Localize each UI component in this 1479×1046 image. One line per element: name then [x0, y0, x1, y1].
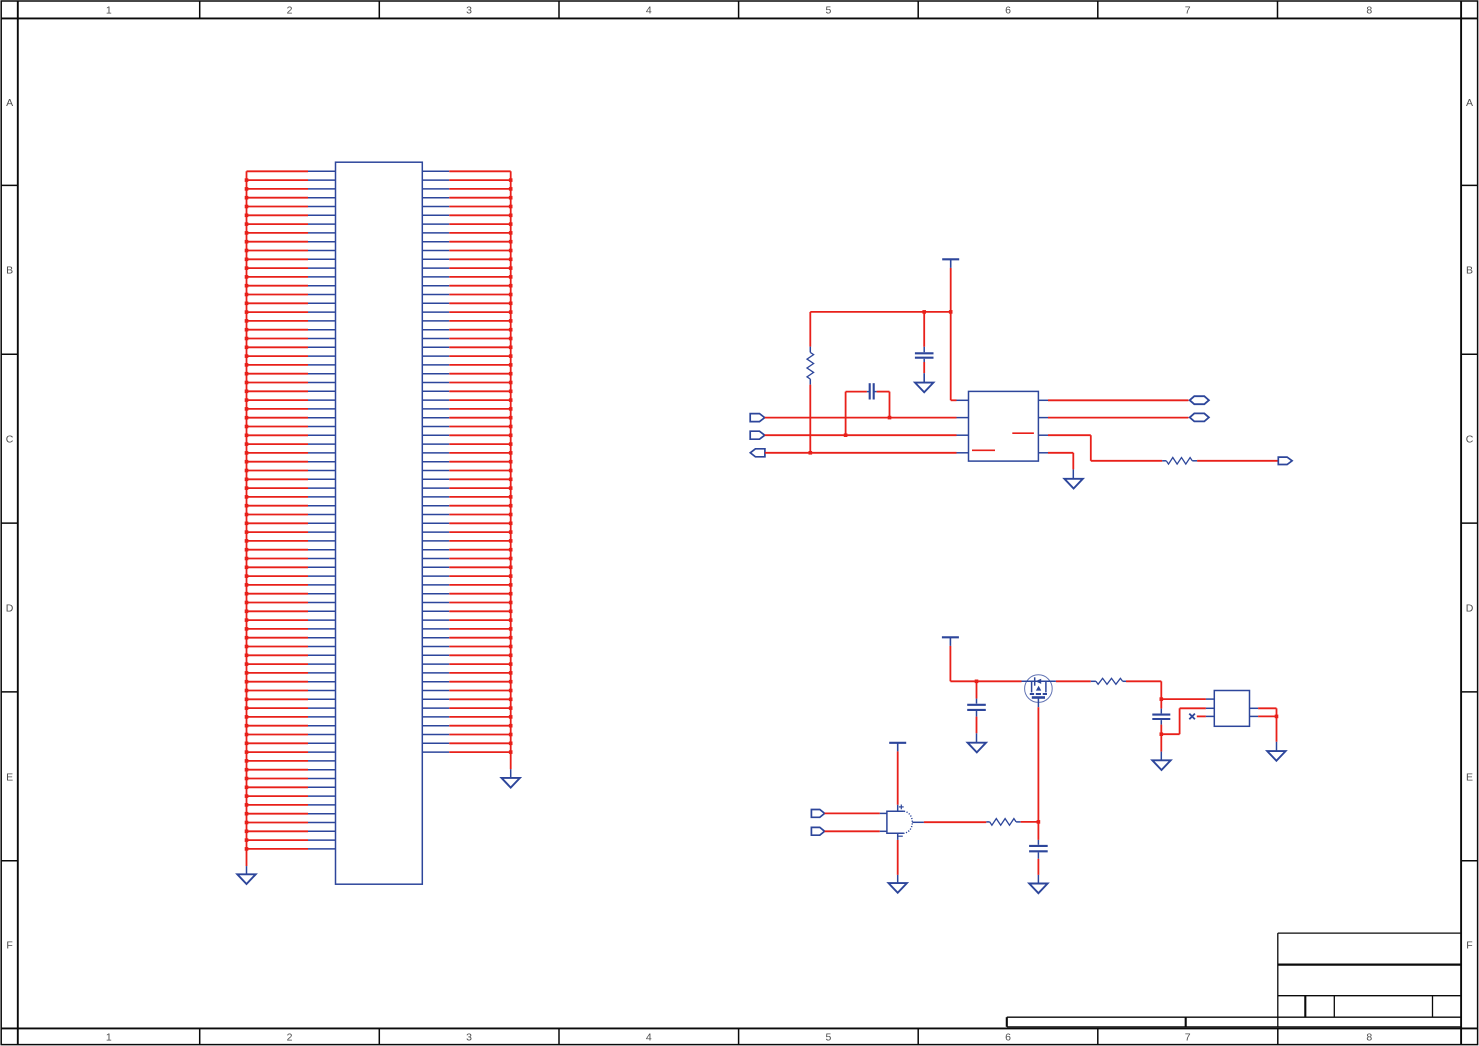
svg-text:B: B: [6, 265, 13, 277]
svg-text:4: 4: [646, 1031, 652, 1043]
svg-text:E: E: [1466, 771, 1473, 783]
svg-text:C: C: [6, 434, 14, 446]
svg-text:B: B: [1466, 265, 1473, 277]
svg-text:E: E: [6, 771, 13, 783]
svg-text:7: 7: [1185, 4, 1191, 16]
svg-text:3: 3: [466, 1031, 472, 1043]
svg-text:A: A: [1466, 97, 1473, 109]
svg-text:8: 8: [1366, 1031, 1372, 1043]
svg-text:4: 4: [646, 4, 652, 16]
svg-text:F: F: [6, 940, 12, 952]
svg-text:F: F: [1466, 940, 1472, 952]
svg-text:A: A: [6, 97, 13, 109]
svg-text:2: 2: [287, 4, 293, 16]
svg-text:2: 2: [287, 1031, 293, 1043]
svg-text:1: 1: [106, 1031, 112, 1043]
svg-text:8: 8: [1366, 4, 1372, 16]
svg-text:D: D: [1466, 602, 1474, 614]
svg-text:D: D: [6, 602, 14, 614]
svg-text:C: C: [1466, 434, 1474, 446]
svg-text:6: 6: [1005, 1031, 1011, 1043]
svg-text:7: 7: [1185, 1031, 1191, 1043]
svg-text:5: 5: [825, 4, 831, 16]
svg-text:1: 1: [106, 4, 112, 16]
svg-text:3: 3: [466, 4, 472, 16]
svg-text:6: 6: [1005, 4, 1011, 16]
svg-text:5: 5: [825, 1031, 831, 1043]
